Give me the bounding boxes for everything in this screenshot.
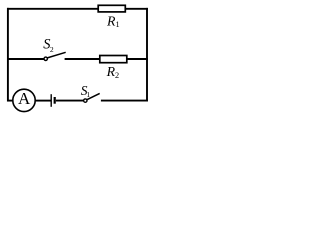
wire battery to switch S1 bbox=[56, 100, 84, 102]
wire right vertical bbox=[146, 8, 148, 102]
switch S2 blade bbox=[47, 52, 65, 58]
wire switch S1 to right bbox=[101, 100, 148, 102]
svg-text:S1: S1 bbox=[81, 83, 91, 99]
battery positive plate (long) bbox=[50, 94, 52, 107]
resistor R1 box bbox=[98, 5, 125, 12]
wire middle horizontal left segment bbox=[7, 58, 44, 60]
ammeter A1 body bbox=[13, 89, 35, 111]
resistor R2 box bbox=[100, 56, 127, 63]
svg-text:R2: R2 bbox=[106, 64, 120, 80]
svg-text:S2: S2 bbox=[43, 37, 54, 54]
battery negative plate (short thick) bbox=[54, 97, 56, 104]
wire bottom left stub bbox=[7, 100, 12, 102]
wire middle horizontal right segment bbox=[65, 58, 148, 60]
svg-text:A: A bbox=[18, 89, 31, 108]
switch S1 pivot bbox=[84, 99, 87, 102]
wire ammeter to battery bbox=[36, 100, 51, 102]
wire left vertical bbox=[7, 8, 9, 102]
switch S1 blade bbox=[87, 93, 100, 99]
switch S2 pivot bbox=[44, 57, 47, 60]
wire top horizontal bbox=[7, 8, 148, 10]
svg-text:R1: R1 bbox=[106, 14, 120, 30]
